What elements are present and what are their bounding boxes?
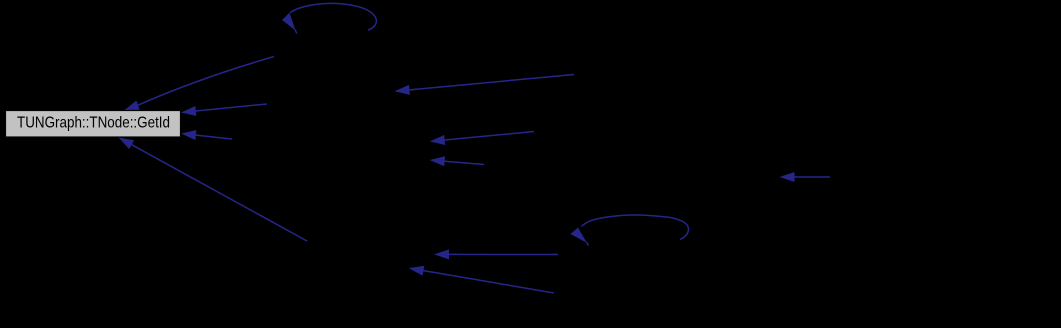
svg-text:TUNGraph::TNode::GetId: TUNGraph::TNode::GetId [17, 114, 170, 131]
wire L [434, 249, 558, 259]
wire G: right arrow [780, 172, 831, 182]
wire K [409, 266, 554, 293]
wire J [430, 156, 484, 166]
wire C: to box right lower [181, 130, 232, 140]
wire H: long edge to mid node [395, 75, 575, 95]
wire A: top node to GetId box top [124, 57, 274, 111]
wire I [430, 132, 534, 146]
node TUNGraph::TNode::GetId [6, 111, 181, 138]
wire F: self-loop on bottom node [571, 215, 689, 246]
wire D: bottom node to box bottom [119, 138, 308, 242]
wire B: mid node to box right upper [181, 104, 267, 116]
wire E: self-loop on top node [282, 3, 376, 33]
